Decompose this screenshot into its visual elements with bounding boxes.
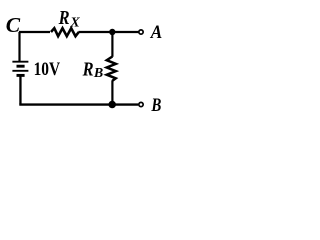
- resistor RX: [51, 28, 79, 36]
- svg-text:B: B: [151, 96, 162, 116]
- svg-text:A: A: [150, 22, 162, 43]
- wire right branch lower stub: [111, 80, 113, 104]
- resistor RB: [107, 57, 116, 81]
- svg-text:B: B: [93, 66, 103, 81]
- terminal B circle: [139, 102, 143, 106]
- svg-text:10V: 10V: [34, 59, 61, 80]
- wire top-right segment: [79, 31, 139, 33]
- terminal A circle: [139, 30, 143, 34]
- wire left lower segment: [19, 76, 21, 105]
- wire bottom segment: [19, 103, 138, 105]
- svg-text:X: X: [69, 15, 80, 30]
- wire top-left segment: [19, 31, 50, 33]
- junction node at B branch: [108, 101, 116, 109]
- svg-text:R: R: [82, 58, 94, 80]
- junction node at A branch: [109, 29, 115, 35]
- wire left upper segment: [18, 32, 20, 61]
- wire right branch upper stub: [111, 32, 113, 57]
- battery 10V: [12, 62, 28, 76]
- svg-text:R: R: [58, 7, 70, 29]
